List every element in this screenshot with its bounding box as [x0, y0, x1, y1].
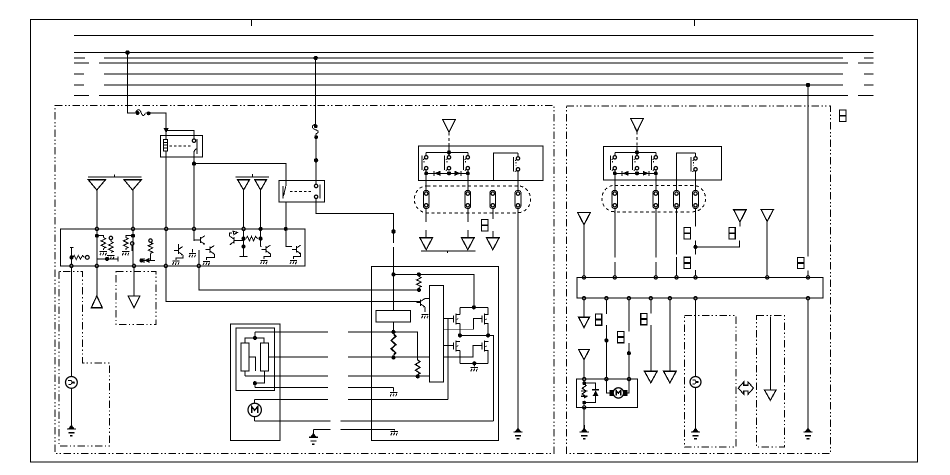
wire P7 down — [676, 209, 678, 276]
pin bottom — [806, 297, 809, 300]
connector triangle A1 — [88, 180, 105, 190]
connector group dashed box — [414, 186, 530, 213]
diode D1 — [434, 171, 440, 176]
node — [605, 339, 608, 342]
node — [472, 306, 475, 309]
connector triangle C11 — [644, 371, 657, 383]
node — [448, 151, 451, 154]
connector triangle C5 — [631, 118, 644, 131]
fuse/relay box 1 — [418, 146, 543, 180]
fuel sender inner box — [236, 328, 275, 390]
pin top — [613, 276, 616, 279]
pin — [627, 378, 630, 381]
relay K1 link — [170, 145, 192, 147]
cell Q8 transistor — [262, 245, 271, 254]
sender zig — [582, 384, 586, 398]
wire P3 down — [492, 209, 494, 238]
node — [416, 375, 419, 378]
node — [242, 245, 245, 248]
earth ground G6 — [580, 425, 589, 439]
relay K1 box — [160, 136, 202, 158]
gauge assembly dash-dot boundary (right) — [567, 106, 831, 454]
gate lead M4 — [443, 343, 482, 358]
cell Q2 resistor 1 — [101, 238, 106, 249]
option boundary 2 dash-dot — [757, 316, 785, 448]
wire to pin — [198, 250, 200, 264]
node — [70, 256, 73, 259]
pin top — [694, 276, 697, 279]
node — [448, 172, 451, 175]
connector pill P4 — [515, 190, 521, 208]
diode D3 — [622, 171, 628, 176]
wire P6 down — [655, 209, 657, 276]
bus line 4 — [74, 62, 874, 64]
transistor leads — [425, 298, 429, 312]
contact S5 — [611, 156, 617, 171]
wire fuse to relay K1 — [145, 113, 166, 128]
pin top — [766, 276, 769, 279]
wire rect to node — [393, 322, 395, 332]
bridge mid rail — [460, 324, 488, 336]
node — [694, 245, 697, 248]
wire B2 down — [260, 190, 262, 227]
contact S1 — [422, 156, 428, 171]
sender line4 drop — [254, 383, 256, 387]
rake ground — [391, 432, 398, 436]
cell Q2 tap — [97, 256, 118, 261]
connector triangle up — [91, 296, 102, 308]
earth ground G5 — [803, 425, 812, 439]
connector triangle C7 — [734, 210, 746, 222]
inline connector — [684, 257, 690, 268]
connector triangle C3 — [462, 238, 475, 250]
resistor Ra zig — [417, 277, 422, 288]
relay K2 contact — [282, 186, 284, 198]
node — [140, 259, 143, 262]
internal bus bottom — [615, 172, 656, 174]
pin top — [259, 227, 262, 230]
driver box — [372, 266, 499, 440]
pin top — [806, 276, 809, 279]
connector triangle A2 — [124, 180, 141, 190]
node — [392, 330, 395, 333]
wire pump to ground — [583, 407, 585, 425]
wire ground line — [313, 429, 330, 431]
connector pill P3 — [490, 190, 496, 208]
cell Q4 circle — [149, 239, 152, 242]
cell Q1 resistor — [73, 255, 84, 259]
connector triangle B1 — [238, 180, 250, 190]
node — [583, 401, 586, 404]
cell Q5 transistor — [174, 247, 183, 256]
wire P2 down — [467, 209, 469, 238]
cell Q6 transistor 2 — [206, 246, 215, 255]
connector triangle C2 — [420, 238, 433, 250]
cell Q6 lead — [194, 239, 196, 241]
bus line 3 — [74, 57, 874, 59]
pin top — [165, 227, 168, 230]
pin top — [675, 276, 678, 279]
node — [636, 151, 639, 154]
wire pin8 down — [286, 231, 292, 247]
wire into K1 coil — [165, 130, 167, 139]
cell Q2 ground 1 — [100, 252, 107, 256]
wire contacts to connector — [426, 170, 518, 190]
connector triangle C6 — [578, 213, 591, 225]
contact S4 — [514, 157, 520, 172]
wire W3 — [628, 300, 630, 378]
triangle bar A — [88, 174, 141, 177]
bus line 2 — [74, 52, 874, 54]
rake ground — [473, 363, 475, 366]
node bus drop 3 — [806, 83, 809, 86]
wire P1 down — [425, 209, 427, 238]
wire K1 coil out — [165, 151, 167, 227]
wire W1b — [583, 360, 585, 378]
relay K1 contact — [192, 139, 195, 142]
node — [106, 257, 109, 260]
node — [458, 334, 461, 337]
relay K2 coil side — [314, 184, 317, 187]
wire A1 down — [96, 190, 98, 227]
cell Q3 resistor — [124, 238, 129, 249]
earth ground G3 — [312, 430, 314, 434]
connector triangle C4 — [487, 238, 500, 250]
fuel sender outer box — [230, 324, 280, 440]
diode D5 — [593, 390, 599, 396]
wire W7 — [807, 300, 809, 425]
contact S2 — [445, 156, 451, 171]
wire into driver box — [393, 247, 395, 266]
node bus drop 2 — [314, 56, 317, 59]
pin bottom — [70, 264, 73, 267]
pin bottom — [197, 264, 200, 267]
cell Q9 leads — [294, 254, 301, 259]
cell Q2 ground 2 — [107, 256, 114, 260]
wire motor A riser — [447, 319, 449, 400]
wire pin7 down — [260, 231, 262, 247]
driver transistor — [416, 299, 425, 308]
contact S3 — [464, 156, 470, 171]
node — [466, 172, 469, 175]
wire pin to sensor — [70, 268, 72, 377]
wire W6b — [695, 388, 697, 426]
node — [425, 172, 428, 175]
pin bottom — [164, 264, 167, 267]
node — [473, 362, 476, 365]
wire motor A — [255, 399, 449, 401]
resistor Ra — [418, 274, 420, 290]
sender resistor — [583, 381, 585, 384]
wire P4 to ground — [517, 209, 519, 426]
diode D4 — [643, 171, 649, 176]
cell Q6 ground 1 — [189, 254, 196, 258]
wire W5 — [669, 300, 671, 371]
pin bottom — [582, 297, 585, 300]
sender resistor right — [260, 343, 268, 371]
pin top — [95, 227, 98, 230]
connector triangle C13 — [765, 390, 777, 400]
pump module box — [576, 379, 637, 407]
earth ground G2 — [513, 425, 522, 439]
cell Q3 ground — [122, 252, 129, 256]
option boundary 1 dash-dot — [684, 316, 736, 448]
connector pill P8 — [693, 190, 699, 208]
cell Q3 link — [126, 236, 133, 250]
IC bar — [429, 286, 443, 382]
fuse F1 — [136, 110, 146, 116]
wire K1 branch to contact — [166, 131, 194, 139]
internal bus top — [426, 151, 468, 153]
inline connector — [684, 228, 690, 239]
pin bottom — [649, 297, 652, 300]
earth ground G1 — [67, 422, 76, 436]
connector triangle C1 — [443, 119, 456, 132]
pin — [605, 378, 608, 381]
bridge bottom rail — [460, 351, 488, 364]
junction arrow — [164, 128, 169, 133]
wire motor B riser — [488, 335, 494, 421]
wire W2 — [605, 300, 607, 378]
wire W1 — [583, 300, 585, 318]
diode D2 — [455, 171, 461, 176]
sender top link — [245, 338, 264, 343]
connector triangle down — [128, 296, 140, 308]
bus line 7 — [74, 95, 874, 97]
node — [242, 237, 245, 240]
sender resistor left — [241, 343, 249, 371]
ECM internal circuit box — [61, 229, 305, 266]
inline connector — [641, 313, 647, 324]
wire C1 to fusebox — [448, 132, 450, 146]
switch boundary dash-dot — [116, 272, 156, 325]
wire — [426, 152, 468, 155]
node — [654, 172, 657, 175]
node bus drop 1 — [126, 51, 129, 54]
wire C5 to fusebox — [636, 132, 638, 147]
cell Q1 sense circle — [85, 256, 89, 260]
cell Q5 leads — [176, 244, 183, 260]
sender bottom right — [255, 371, 265, 383]
node — [95, 234, 98, 237]
label rect — [376, 311, 410, 322]
wire bus drop 3 — [807, 85, 809, 276]
resistor Rc — [415, 360, 420, 375]
cell Q7 cap — [233, 231, 238, 234]
gate lead M2 — [443, 316, 482, 330]
sender mid link — [249, 357, 255, 371]
inline connector — [618, 331, 624, 342]
pin top — [582, 276, 585, 279]
pin top — [131, 227, 134, 230]
cell Q6 transistor 1 — [196, 236, 205, 245]
pin top — [654, 276, 657, 279]
sensor 2 detail — [692, 380, 698, 384]
relay K2 box — [279, 180, 325, 202]
node — [259, 237, 262, 240]
cell Q7 transistor — [230, 236, 239, 245]
inline connector — [482, 220, 488, 231]
node — [583, 382, 586, 385]
ECM/PCM dash-dot boundary (left) — [55, 106, 554, 454]
wire P8 down — [695, 209, 697, 276]
wire option 2 — [769, 317, 771, 391]
connector group dashed box — [602, 185, 706, 212]
wire S4 top link — [493, 153, 518, 180]
sender line1 riser — [254, 332, 256, 338]
wire W4 — [650, 300, 652, 371]
wire K1 to K2 — [194, 164, 286, 187]
pin bottom — [668, 297, 671, 300]
wire — [448, 146, 450, 156]
node — [253, 336, 256, 339]
wire branch to C7 — [696, 241, 740, 247]
pin top — [242, 227, 245, 230]
gauge module box — [577, 277, 823, 298]
mosfet M3 — [453, 341, 460, 352]
wire bus drop 2 — [315, 58, 317, 124]
frame tick 2 — [694, 20, 696, 27]
connector triangle C10 — [579, 349, 590, 359]
cell Q2 circle — [109, 236, 112, 239]
wire K2 left pin down — [285, 202, 287, 227]
sensor circle — [66, 377, 78, 389]
triangle bar B — [235, 174, 269, 177]
wire sensor to ground — [70, 388, 72, 422]
node — [392, 273, 395, 276]
wire C7 stub — [739, 222, 741, 226]
wire — [636, 146, 638, 156]
mosfet M1 — [453, 314, 460, 325]
wire ground return — [340, 430, 394, 431]
rake ground — [421, 315, 428, 319]
cell Q8 leads — [261, 247, 271, 259]
mosfet M4 — [482, 341, 489, 352]
pump brushes — [610, 390, 614, 396]
gate lead M3 — [443, 343, 453, 350]
wire ECM to driver IN1 — [166, 268, 421, 302]
pump motor — [613, 388, 623, 398]
cell Q8 ground — [260, 260, 267, 264]
wire sender line4 — [255, 387, 394, 389]
supply rail — [394, 274, 474, 307]
connector pill P2 — [465, 190, 471, 208]
node splice — [314, 159, 317, 162]
wire fuse2 to relay K2 — [315, 134, 317, 185]
bridge top rail — [460, 307, 488, 314]
bus line 1 — [74, 35, 874, 37]
wire sender line1 — [255, 331, 418, 333]
wire W6 — [695, 300, 697, 377]
relay K2 link — [290, 191, 312, 193]
gate lead M1 — [443, 316, 453, 323]
triangle underline — [421, 251, 475, 253]
wire motor B — [255, 420, 494, 422]
line4 ground — [393, 388, 395, 392]
fuel pump motor — [248, 403, 261, 416]
pin bottom — [132, 264, 135, 267]
contact S7 — [652, 156, 658, 171]
connector pill P6 — [653, 190, 659, 208]
node — [253, 382, 256, 385]
inline connector — [595, 314, 601, 325]
pin — [583, 406, 586, 409]
motor leads — [254, 400, 256, 421]
wire sender line2 — [269, 356, 430, 358]
node — [636, 172, 639, 175]
fuse F2 — [312, 124, 318, 134]
wire K1 contact out — [193, 154, 195, 228]
node splice — [392, 230, 395, 233]
wire down-triangle feed — [133, 268, 135, 296]
mosfet M2 — [482, 314, 489, 325]
cell Q3 circle — [131, 242, 134, 245]
pump motor label — [616, 390, 621, 395]
cell Q9 transistor — [292, 245, 301, 254]
inline connector — [729, 228, 735, 239]
sensor circle 2 — [690, 377, 701, 388]
cell Q5 ground — [172, 261, 179, 265]
frame tick 1 — [251, 20, 253, 27]
contact S8 — [691, 157, 697, 172]
inline connector — [798, 257, 804, 268]
bus line 6 — [74, 84, 874, 86]
wire ECM to driver IN2 — [199, 268, 417, 291]
node — [627, 352, 630, 355]
cell Q4 diode — [144, 258, 149, 263]
resistor Rb — [391, 334, 396, 355]
connector triangle C9 — [579, 317, 590, 327]
wire contacts to connector — [615, 170, 696, 190]
wire A2 down — [132, 190, 134, 227]
node — [132, 234, 135, 237]
wire up-triangle feed — [96, 268, 98, 296]
bidirectional arrow — [738, 382, 753, 394]
cell Q8 resistor — [246, 236, 257, 241]
wire K2 right pin to driver — [316, 199, 393, 244]
relay K1 coil — [163, 139, 167, 151]
cell Q7 leads — [230, 233, 244, 240]
node — [417, 273, 420, 276]
sensor detail — [68, 380, 75, 384]
wire pin3 through — [132, 231, 134, 265]
bus line 5 — [74, 73, 874, 75]
node — [417, 288, 420, 291]
wire pin6 down — [243, 231, 245, 257]
internal bus top — [615, 151, 656, 153]
pin bottom — [694, 297, 697, 300]
wire bus drop 3 gap — [807, 252, 809, 276]
pin top — [284, 227, 287, 230]
sender bars — [581, 391, 588, 396]
node — [613, 172, 616, 175]
pin top — [192, 227, 195, 230]
cell Q2 resistor 2 — [109, 242, 114, 253]
wire C6 down — [583, 225, 585, 276]
diode branch — [584, 383, 595, 402]
pin bottom — [605, 297, 608, 300]
connector triangle C12 — [664, 371, 677, 383]
pin bottom — [95, 264, 98, 267]
cell Q4 resistor — [148, 242, 153, 253]
wire pin4 through — [165, 231, 167, 265]
node — [487, 334, 490, 337]
cell Q2 link — [97, 236, 111, 250]
cell Q1 stub — [70, 248, 74, 265]
connector pill P7 — [674, 190, 680, 208]
sender bottom left — [244, 371, 246, 376]
cell Q4 lead — [141, 253, 155, 260]
